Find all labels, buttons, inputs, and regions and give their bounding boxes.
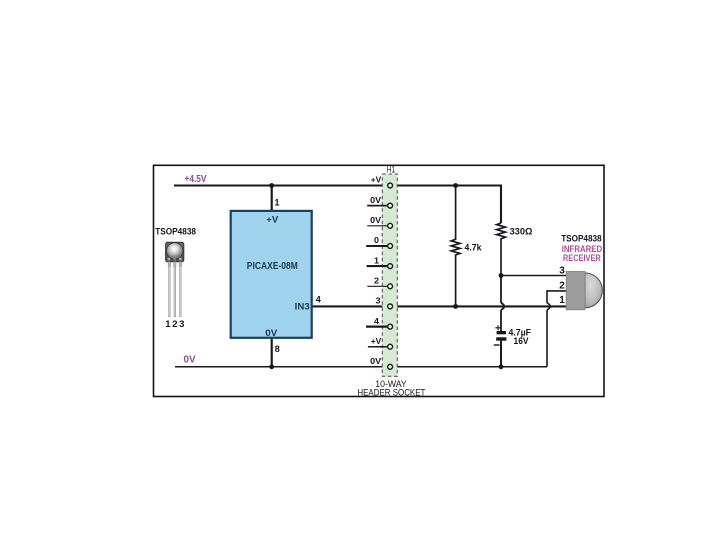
svg-text:4: 4 <box>374 316 379 326</box>
svg-text:+V: +V <box>266 214 278 224</box>
svg-text:16V: 16V <box>514 336 530 347</box>
wire 0V rail <box>175 366 547 368</box>
wire PICAXE pin 8 to 0V rail <box>271 338 273 367</box>
svg-text:PICAXE-08M: PICAXE-08M <box>247 261 298 272</box>
header row 3: label 0V, stub wire and socket pin <box>367 215 392 228</box>
junction dot: PICAXE pin8 on 0V rail <box>269 364 274 369</box>
IR receiver module photo (left) <box>166 242 184 316</box>
junction dot: R2 bottom / receiver pin3 node <box>499 273 504 278</box>
header row 9: label +V, stub wire and socket pin <box>368 336 393 349</box>
junction dot: R1 top on +4.5V rail <box>453 183 458 188</box>
wire +4.5V supply rail <box>174 186 501 224</box>
capacitor C1 4.7uF 16V <box>494 325 507 367</box>
IC U1 PICAXE-08M <box>231 211 312 338</box>
svg-text:HEADER SOCKET: HEADER SOCKET <box>357 387 425 397</box>
svg-text:0V: 0V <box>184 355 196 366</box>
svg-text:3: 3 <box>376 296 381 306</box>
svg-text:H1: H1 <box>387 165 396 175</box>
wire Vs node down to capacitor with hop over IN3 row <box>501 276 504 332</box>
header row 6: label 2, stub wire and socket pin <box>367 276 392 289</box>
wire IR receiver pin 3 to Vs node <box>501 275 566 277</box>
svg-text:2: 2 <box>172 319 177 330</box>
svg-text:+V: +V <box>371 336 382 346</box>
caption 10-WAY HEADER SOCKET <box>357 379 425 398</box>
svg-text:2: 2 <box>559 280 565 291</box>
header row 2: label 0V, stub wire and socket pin <box>367 195 392 208</box>
resistor R2 330 ohm <box>497 223 506 276</box>
junction dot: capacitor on 0V rail <box>499 364 504 369</box>
IR receiver TSOP4838 symbol (body and dome) <box>566 271 602 309</box>
wire PICAXE pin 1 to +4.5V rail <box>271 186 273 211</box>
svg-text:2: 2 <box>374 276 379 286</box>
svg-text:0V: 0V <box>370 215 381 225</box>
svg-text:+4.5V: +4.5V <box>185 174 207 185</box>
header row 10: label 0V and socket pin (0V rail) <box>370 356 392 369</box>
svg-text:+V: +V <box>371 175 382 185</box>
wire IR receiver pin 2 down to 0V rail with hop over IN3 row <box>547 291 566 367</box>
svg-text:IN3: IN3 <box>295 301 310 311</box>
svg-text:0: 0 <box>374 235 379 245</box>
svg-text:330Ω: 330Ω <box>510 227 533 238</box>
svg-text:1: 1 <box>374 255 379 265</box>
header row 7: label 3 and socket pin (IN3 row) <box>376 296 393 309</box>
svg-text:0V: 0V <box>370 195 381 205</box>
junction dot: R1 bottom on IN3 row <box>453 304 458 309</box>
header row 1: label +V and socket pin <box>371 175 393 188</box>
header row 5: label 1, stub wire and socket pin <box>367 255 393 268</box>
svg-text:1: 1 <box>559 295 565 306</box>
svg-text:8: 8 <box>275 344 280 354</box>
resistor R1 4.7k <box>451 186 460 307</box>
svg-text:TSOP4838: TSOP4838 <box>155 226 196 237</box>
svg-text:0V: 0V <box>265 328 277 338</box>
svg-text:0V: 0V <box>370 356 381 366</box>
svg-text:1: 1 <box>275 197 280 207</box>
svg-text:4.7k: 4.7k <box>465 242 483 253</box>
svg-text:3: 3 <box>179 319 184 330</box>
svg-text:3: 3 <box>559 265 565 276</box>
svg-text:1: 1 <box>165 319 171 330</box>
svg-text:RECEIVER: RECEIVER <box>563 253 601 264</box>
connector H1 10-way header socket strip <box>382 174 397 376</box>
junction dot: PICAXE pin1 on +4.5V rail <box>269 183 274 188</box>
header row 4: label 0, stub wire and socket pin <box>366 235 392 248</box>
svg-text:4: 4 <box>316 294 321 304</box>
wire IN3 row: PICAXE pin 4 to header pin3 and IR receiver pin 1 <box>312 305 567 307</box>
header row 8: label 4, stub wire and socket pin <box>366 316 393 329</box>
